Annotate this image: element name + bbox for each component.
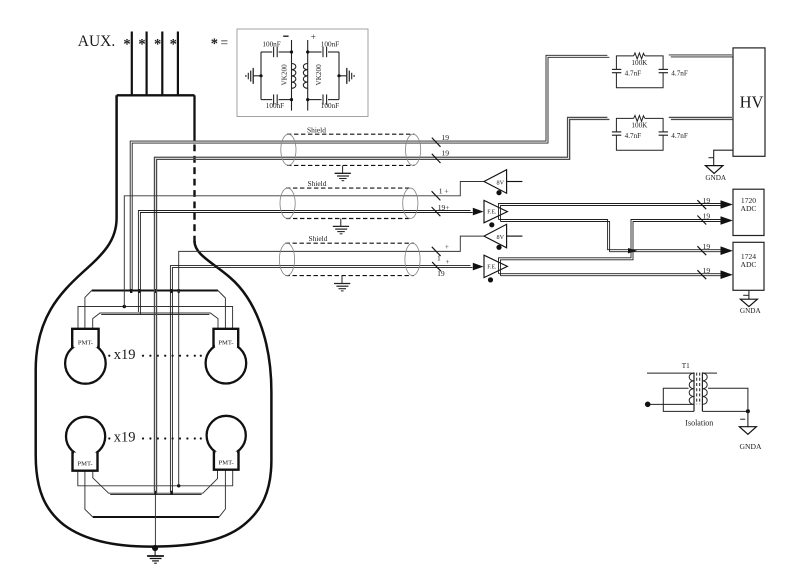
- svg-text:F.E.: F.E.: [487, 210, 497, 216]
- resistor 100K zigzag: [634, 53, 645, 59]
- transformer ground wire: [747, 411, 749, 427]
- ground shield 2: [340, 219, 342, 227]
- svg-text:+: +: [445, 242, 449, 251]
- PMT bottom-left: [66, 417, 105, 471]
- svg-text:Isolation: Isolation: [685, 419, 713, 428]
- svg-text:100nF: 100nF: [262, 40, 280, 48]
- primary bottom lead: [648, 403, 694, 405]
- svg-text:Shield: Shield: [309, 234, 328, 243]
- svg-text:*: *: [170, 37, 177, 53]
- wire RC2 to HV: [669, 117, 734, 119]
- frame line E double: [93, 470, 218, 494]
- svg-text:ADC: ADC: [740, 204, 756, 213]
- junction mark crossover: [628, 248, 637, 253]
- star marks: [123, 37, 176, 53]
- ground GNDA (T1): [739, 427, 756, 435]
- svg-text:19: 19: [703, 242, 711, 251]
- vessel neck top: [117, 94, 195, 96]
- svg-text:8V: 8V: [497, 234, 505, 241]
- secondary bottom lead: [702, 410, 748, 412]
- op-amp 8V regulator 2: [484, 224, 522, 250]
- ground GNDA (ADC): [740, 299, 757, 306]
- capacitor C2 100nF bottom-left: [261, 99, 272, 101]
- capacitor C4 100nF bottom-right: [308, 99, 322, 101]
- svg-text:T1: T1: [682, 362, 690, 370]
- svg-text:=: =: [221, 35, 229, 50]
- vessel neck right dashed: [193, 145, 195, 247]
- bus F.E.2 out B to 1724 ADC in2: [499, 274, 723, 276]
- filter legend box: [237, 29, 368, 117]
- minus sign: [283, 35, 288, 37]
- wire AUX4: [177, 32, 179, 96]
- wire RC1 to HV: [669, 55, 734, 57]
- secondary top lead: [702, 372, 717, 374]
- wire w1 (coax pair to HV filter 1): [130, 55, 609, 291]
- op-amp 8V regulator 1: [484, 170, 522, 196]
- svg-text:*: *: [123, 37, 130, 53]
- inner frame top thick rail: [92, 289, 218, 291]
- svg-text:*: *: [138, 37, 145, 53]
- inductor VK200 right coil: [303, 64, 307, 89]
- wire right rail: [338, 52, 340, 100]
- capacitor C3 100nF top-right: [308, 51, 322, 53]
- crossing marks on thick rails: [130, 289, 180, 494]
- ground shield 3: [341, 276, 343, 284]
- wire w2 (coax pair to HV filter 2): [154, 117, 609, 494]
- svg-text:Shield: Shield: [307, 125, 326, 134]
- shield cable 2: [280, 179, 418, 234]
- svg-text:GNDA: GNDA: [705, 174, 727, 182]
- wire AUX3: [161, 32, 163, 96]
- svg-text:4.7nF: 4.7nF: [625, 70, 642, 78]
- op-amp F.E. 2: [473, 255, 508, 282]
- svg-text:PMT-: PMT-: [78, 339, 93, 346]
- bus F.E.1 out A to 1720 ADC in1: [499, 204, 723, 222]
- capacitor 4.7nF left plates: [612, 68, 621, 70]
- svg-text:*: *: [154, 37, 161, 53]
- primary tap loop: [663, 388, 694, 411]
- node minus rail: [291, 40, 293, 111]
- HV ground wire: [714, 150, 733, 165]
- transformer T1: [647, 372, 748, 411]
- svg-text:8V: 8V: [497, 179, 505, 186]
- frame bottom rail end links: [85, 470, 226, 517]
- AUX wires with stars: [132, 32, 178, 96]
- wire AUX2: [146, 32, 148, 96]
- vessel outline: [36, 95, 272, 546]
- svg-text:100nF: 100nF: [321, 102, 339, 110]
- RC filter 2 (100K / 4.7nF): [612, 115, 688, 150]
- PMT top-right: [206, 329, 247, 384]
- svg-text:+: +: [311, 32, 316, 42]
- capacitor 4.7nF right plates: [659, 68, 668, 70]
- wire left rail: [260, 52, 262, 100]
- ground shield 1: [342, 165, 344, 173]
- x19 row 1: [108, 347, 202, 363]
- svg-text:Shield: Shield: [308, 179, 327, 188]
- slashes + 19 labels at ADC inputs: [697, 200, 706, 279]
- svg-text:19+: 19+: [438, 203, 450, 212]
- svg-text:100nF: 100nF: [266, 102, 284, 110]
- vessel ground symbol: [147, 548, 164, 563]
- shield cable 3: [279, 234, 420, 291]
- svg-text:x19: x19: [114, 430, 136, 446]
- wire w6 (pair into F.E. 2): [170, 266, 472, 494]
- ADC 1724 ground wire: [748, 290, 750, 299]
- svg-text:VK200: VK200: [281, 64, 289, 86]
- svg-text:100nF: 100nF: [321, 40, 339, 48]
- ground left (bar style): [253, 75, 261, 77]
- ground GNDA (HV): [705, 166, 723, 174]
- svg-text:VK200: VK200: [315, 64, 323, 86]
- frame line C double: [93, 313, 218, 329]
- wire w4 (pair into F.E. 1): [138, 211, 472, 315]
- PMT top-left: [65, 329, 106, 384]
- svg-text:PMT-: PMT-: [219, 460, 234, 467]
- vessel ground node: [152, 545, 158, 551]
- bus F.E.2 out A to 1720 ADC in2: [499, 220, 723, 276]
- bus F.E.1 out B to 1724 ADC in1: [499, 220, 723, 252]
- node dot w5-D: [177, 484, 180, 487]
- PMT bottom-right: [207, 416, 246, 470]
- wire w5 (single, to 8V amp 2): [179, 236, 484, 486]
- svg-text:19: 19: [703, 196, 711, 205]
- ADC 1720 box: [733, 189, 764, 235]
- svg-text:GNDA: GNDA: [740, 307, 762, 315]
- ADC 1724 box: [733, 242, 764, 290]
- svg-text:PMT-: PMT-: [218, 339, 233, 346]
- wire AUX1: [131, 32, 133, 96]
- svg-text:100K: 100K: [631, 59, 648, 67]
- junction dots filter box: [259, 50, 340, 101]
- svg-text:PMT-: PMT-: [77, 461, 92, 468]
- svg-text:+: +: [445, 257, 449, 266]
- frame line D: [78, 470, 233, 486]
- capacitor C1 100nF top-left: [261, 51, 272, 53]
- secondary winding: [702, 373, 707, 404]
- svg-text:1: 1: [437, 254, 441, 263]
- bus slashes and width labels at cable exits: [432, 138, 441, 272]
- shield cable 1: [281, 125, 421, 180]
- node dot w3-A: [123, 305, 126, 308]
- node secondary-gnd: [746, 409, 750, 413]
- primary winding: [689, 373, 694, 404]
- svg-text:F.E.: F.E.: [487, 264, 497, 270]
- primary top lead: [647, 372, 694, 374]
- HV supply box: [733, 48, 765, 156]
- node plus rail: [307, 40, 309, 111]
- svg-text:4.7nF: 4.7nF: [671, 70, 688, 78]
- svg-text:HV: HV: [740, 93, 764, 112]
- vessel neck right solid: [193, 95, 195, 140]
- wire w3 (single, to 8V amp 1): [124, 182, 483, 307]
- svg-text:AUX.: AUX.: [78, 33, 115, 50]
- svg-text:19: 19: [442, 133, 450, 142]
- x19 row 2: [108, 430, 202, 446]
- svg-text:19: 19: [442, 148, 450, 157]
- frame top rail end links: [85, 291, 226, 329]
- value labels VK200: [281, 64, 323, 86]
- svg-text:1 +: 1 +: [439, 186, 449, 195]
- svg-text:19: 19: [703, 211, 711, 220]
- core lines: [693, 372, 695, 411]
- RC filter 1 (100K / 4.7nF): [612, 53, 688, 88]
- frame line A: [78, 307, 233, 329]
- value labels 100nF: [262, 40, 339, 110]
- secondary tap lead: [708, 388, 748, 411]
- svg-text:GNDA: GNDA: [740, 442, 762, 451]
- svg-text:ADC: ADC: [740, 260, 756, 269]
- svg-text:x19: x19: [114, 347, 136, 363]
- svg-text:*: *: [211, 36, 218, 52]
- ground right (bar style): [339, 75, 347, 77]
- vessel ground wire: [154, 495, 156, 548]
- inductor VK200 left coil: [292, 64, 296, 89]
- svg-text:19: 19: [437, 269, 445, 278]
- terminal node T1: [645, 402, 651, 408]
- op-amp F.E. 1: [473, 200, 508, 227]
- frame bottom thick rail: [93, 516, 219, 518]
- arrows into ADCs: [721, 200, 733, 209]
- svg-text:19: 19: [703, 266, 711, 275]
